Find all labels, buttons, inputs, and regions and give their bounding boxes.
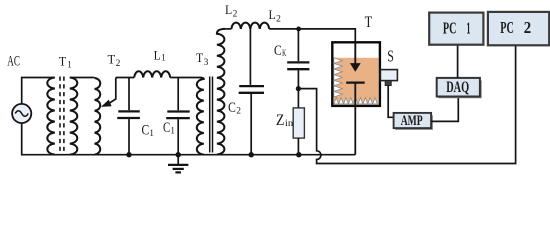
Zin wire lower (297, 138, 299, 155)
svg-text:in: in (285, 119, 294, 129)
capacitor CK wire upper (297, 29, 299, 61)
DAQ box shadow (438, 80, 481, 97)
svg-text:2: 2 (276, 15, 281, 25)
C2 plates (239, 86, 264, 93)
impedance Zin box (293, 108, 304, 138)
svg-text:DAQ: DAQ (446, 79, 469, 96)
junction dot C1 second bottom (176, 152, 181, 157)
autotransformer T2 winding (95, 78, 101, 155)
wire DAQ to PC1 (457, 45, 459, 78)
svg-text:T: T (196, 50, 203, 65)
test cell T box (332, 42, 380, 106)
wire T1 to T2 (70, 77, 95, 79)
node dot CK bottom (296, 86, 301, 91)
svg-text:AC: AC (7, 54, 20, 70)
svg-text:T: T (365, 14, 373, 31)
wire AC top to T1 (22, 78, 55, 104)
inductor L1 (134, 71, 170, 77)
transformer T1 primary winding (47, 78, 55, 155)
AC source V1 (12, 104, 31, 123)
svg-text:2: 2 (236, 107, 241, 117)
C1 first wire lower (128, 119, 130, 155)
electrode bar (346, 81, 365, 83)
electrode lower wire to ground rail (354, 83, 356, 154)
wire AMP to DAQ (431, 97, 458, 122)
svg-text:2: 2 (233, 10, 238, 20)
inductor L2 (second) (250, 23, 269, 29)
signal wire node to PC2 with hop over ground rail (298, 46, 515, 164)
svg-text:2: 2 (524, 18, 531, 37)
junction dot Zin bottom (296, 152, 301, 157)
T3 core (210, 77, 213, 153)
wire S to AMP (388, 86, 393, 118)
svg-text:S: S (387, 47, 394, 66)
wire T3 top to L2 (225, 28, 231, 30)
svg-text:T: T (108, 52, 116, 67)
CK wire lower (297, 70, 299, 88)
C1 first plates (117, 111, 140, 118)
svg-text:1: 1 (149, 128, 154, 138)
C2 wire lower (250, 94, 252, 155)
svg-text:PC: PC (443, 18, 457, 37)
svg-text:PC: PC (500, 18, 514, 37)
transformer T3 primary winding (197, 78, 204, 155)
junction dot C1 first bottom (126, 152, 131, 157)
electrode shaft with arrow (354, 42, 356, 63)
CK plates (287, 62, 309, 69)
svg-text:L: L (154, 48, 161, 63)
T2 tap arrowhead (101, 100, 112, 107)
sensor S nub (385, 81, 391, 86)
electrode arrowhead (350, 63, 361, 72)
svg-text:1: 1 (161, 53, 166, 63)
svg-text:L: L (225, 3, 232, 17)
svg-text:C: C (274, 43, 282, 59)
test cell liquid fill (334, 58, 379, 105)
computer PC1 box (429, 13, 483, 45)
T1 core (dashed) (60, 77, 64, 154)
svg-text:Z: Z (276, 112, 285, 129)
capacitor C1 (first) wire upper (128, 78, 130, 111)
ground symbol (177, 155, 179, 165)
svg-text:1: 1 (170, 126, 175, 136)
svg-text:1: 1 (466, 18, 470, 37)
svg-text:K: K (282, 48, 287, 58)
amplifier AMP box (394, 113, 432, 128)
svg-text:C: C (228, 100, 236, 116)
AC sine symbol (15, 111, 28, 117)
svg-text:2: 2 (116, 59, 121, 69)
svg-text:T: T (59, 53, 67, 68)
sensor S box (380, 70, 397, 81)
svg-text:3: 3 (204, 58, 209, 68)
test cell bottom sawtooth (334, 98, 378, 104)
svg-text:C: C (163, 120, 170, 136)
computer PC2 box (488, 12, 549, 45)
svg-text:L: L (269, 7, 276, 22)
AMP box shadow (395, 115, 432, 129)
transformer T3 secondary winding (217, 29, 225, 155)
bottom ground rail (22, 123, 356, 155)
transformer T1 secondary winding (70, 78, 78, 155)
top rail L2 to test cell (269, 29, 355, 42)
C1 second wire lower (177, 119, 179, 155)
data acquisition DAQ box (437, 78, 480, 97)
svg-text:1: 1 (67, 59, 72, 69)
junction dot top rail (296, 27, 301, 32)
svg-text:AMP: AMP (401, 113, 423, 129)
inductor L2 (first) (231, 23, 250, 29)
junction dot C2 bottom (249, 152, 254, 157)
test cell left sawtooth (334, 58, 343, 97)
impedance Zin wire upper (297, 89, 299, 108)
top rail tap to T3 (116, 77, 200, 79)
T2 variable tap wire (109, 78, 116, 104)
capacitor C1 (second) wire upper (177, 78, 179, 111)
C1 second plates (166, 112, 190, 119)
capacitor C2 wire upper (249, 29, 251, 85)
svg-text:C: C (142, 123, 150, 139)
